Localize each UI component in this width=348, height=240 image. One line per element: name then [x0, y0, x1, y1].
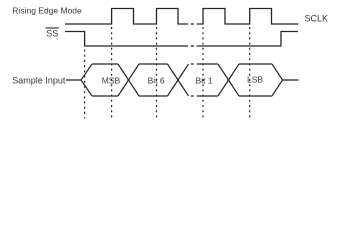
svg-text:Sample Input: Sample Input: [12, 75, 66, 85]
svg-text:Bit 6: Bit 6: [148, 75, 165, 85]
wire bus top edge MSB: [92, 63, 118, 65]
wire bus top edge LSB: [239, 63, 272, 65]
wire SCLK waveform left segment: [65, 9, 188, 25]
wire bus bottom edge LSB: [239, 95, 272, 97]
overline of SS: [46, 27, 59, 29]
node bus opening: [81, 64, 92, 96]
node sample marker clock edge 2: [156, 27, 158, 119]
svg-text:Bit 1: Bit 1: [196, 75, 213, 85]
wire bus bottom edge Bit6: [139, 95, 168, 97]
svg-text:Rising Edge Mode: Rising Edge Mode: [12, 5, 82, 15]
wire sample-input lead-in: [66, 79, 81, 81]
wire SS waveform left segment: [65, 32, 188, 47]
wire bus top edge Bit6: [139, 63, 168, 65]
node sample marker clock edge 1: [111, 27, 113, 119]
wire SS break dash: [191, 45, 194, 47]
node sample marker clock edge 4: [249, 27, 251, 119]
wire bus top edge Bit1: [197, 63, 218, 65]
node crossover MSB/Bit6: [118, 64, 139, 96]
wire sample-input lead-out: [283, 79, 299, 81]
svg-text:MSB: MSB: [102, 75, 121, 85]
node bus closing: [272, 64, 283, 96]
svg-text:LSB: LSB: [247, 74, 263, 84]
wire bus bottom edge Bit1: [197, 95, 218, 97]
node sample marker at SS fall: [84, 50, 86, 119]
svg-text:SCLK: SCLK: [305, 13, 329, 23]
wire bus break dash bottom: [191, 95, 194, 97]
wire bus bottom edge MSB: [92, 95, 118, 97]
wire SCLK waveform right segment: [197, 9, 299, 25]
node crossover Bit1/LSB: [218, 64, 239, 96]
wire SS waveform right segment: [197, 32, 298, 47]
node crossover Bit6/Bit1: [168, 64, 189, 96]
wire SCLK break dash: [191, 23, 194, 25]
node sample marker clock edge 3: [202, 27, 204, 119]
svg-text:SS: SS: [46, 29, 58, 39]
wire bus break dash top: [191, 63, 194, 65]
